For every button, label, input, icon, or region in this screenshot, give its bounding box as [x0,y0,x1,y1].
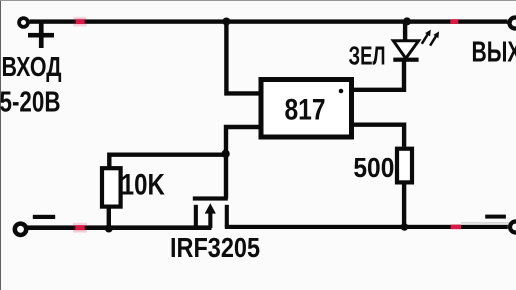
wire top rail [30,19,508,23]
terminal J2 (- input) [15,224,26,235]
resistor R1 10K [102,168,121,206]
svg-text:ВХОД: ВХОД [2,51,62,82]
LED light emission arrows [422,30,439,46]
minus symbol (input) [33,215,55,219]
node C: R1 to bottom rail [105,225,113,233]
terminal J4 (- output) [510,222,516,233]
wire R2 bottom lead [402,185,406,227]
node B: junction U1 pin2 / R1 / Q1 gate [221,150,229,158]
wire U1 pin4 lead (to LED cathode) [352,61,404,90]
video frame border top [0,0,516,2]
svg-text:10K: 10K [121,169,165,202]
node D: LED to top rail [403,17,411,25]
wire R1 bottom lead [107,208,111,228]
transistor Q1 IRF3205 [193,196,228,228]
optocoupler U1 817 body [261,80,352,138]
LED D1 (green) [393,22,418,62]
svg-text:5-20В: 5-20В [0,86,61,118]
wire U1 pin3 lead (to R2) [352,125,404,147]
svg-text:ВЫХ: ВЫХ [472,37,516,69]
red cursor mark bottom-left [73,223,87,233]
node E: R2 to bottom rail [401,223,409,231]
node A: top rail to U1 pin1 [222,18,230,26]
svg-text:ЗЕЛ: ЗЕЛ [349,40,386,70]
U1 pin1 marker dot [339,89,344,94]
red cursor mark bottom-right [451,225,461,230]
red cursor mark top-left [74,17,87,27]
plus symbol (input polarity) [28,23,54,48]
svg-text:500: 500 [353,152,394,183]
wire R1 top to node B [109,155,226,167]
terminal J3 (+ output) [510,18,516,29]
wire bottom rail right [225,225,508,229]
resistor R2 500 [397,149,412,183]
video frame border left [0,0,2,290]
svg-text:817: 817 [285,93,326,126]
wire bottom rail left [26,225,212,230]
terminal J1 (+ input) [19,18,28,27]
wire U1 pin1 lead [226,22,259,94]
faint artifact line bottom-right [461,222,515,223]
svg-text:IRF3205: IRF3205 [170,232,260,263]
minus symbol (output) [485,215,506,219]
wire U1 pin2 lead to gate [226,127,259,199]
red cursor mark top-right [450,19,458,24]
